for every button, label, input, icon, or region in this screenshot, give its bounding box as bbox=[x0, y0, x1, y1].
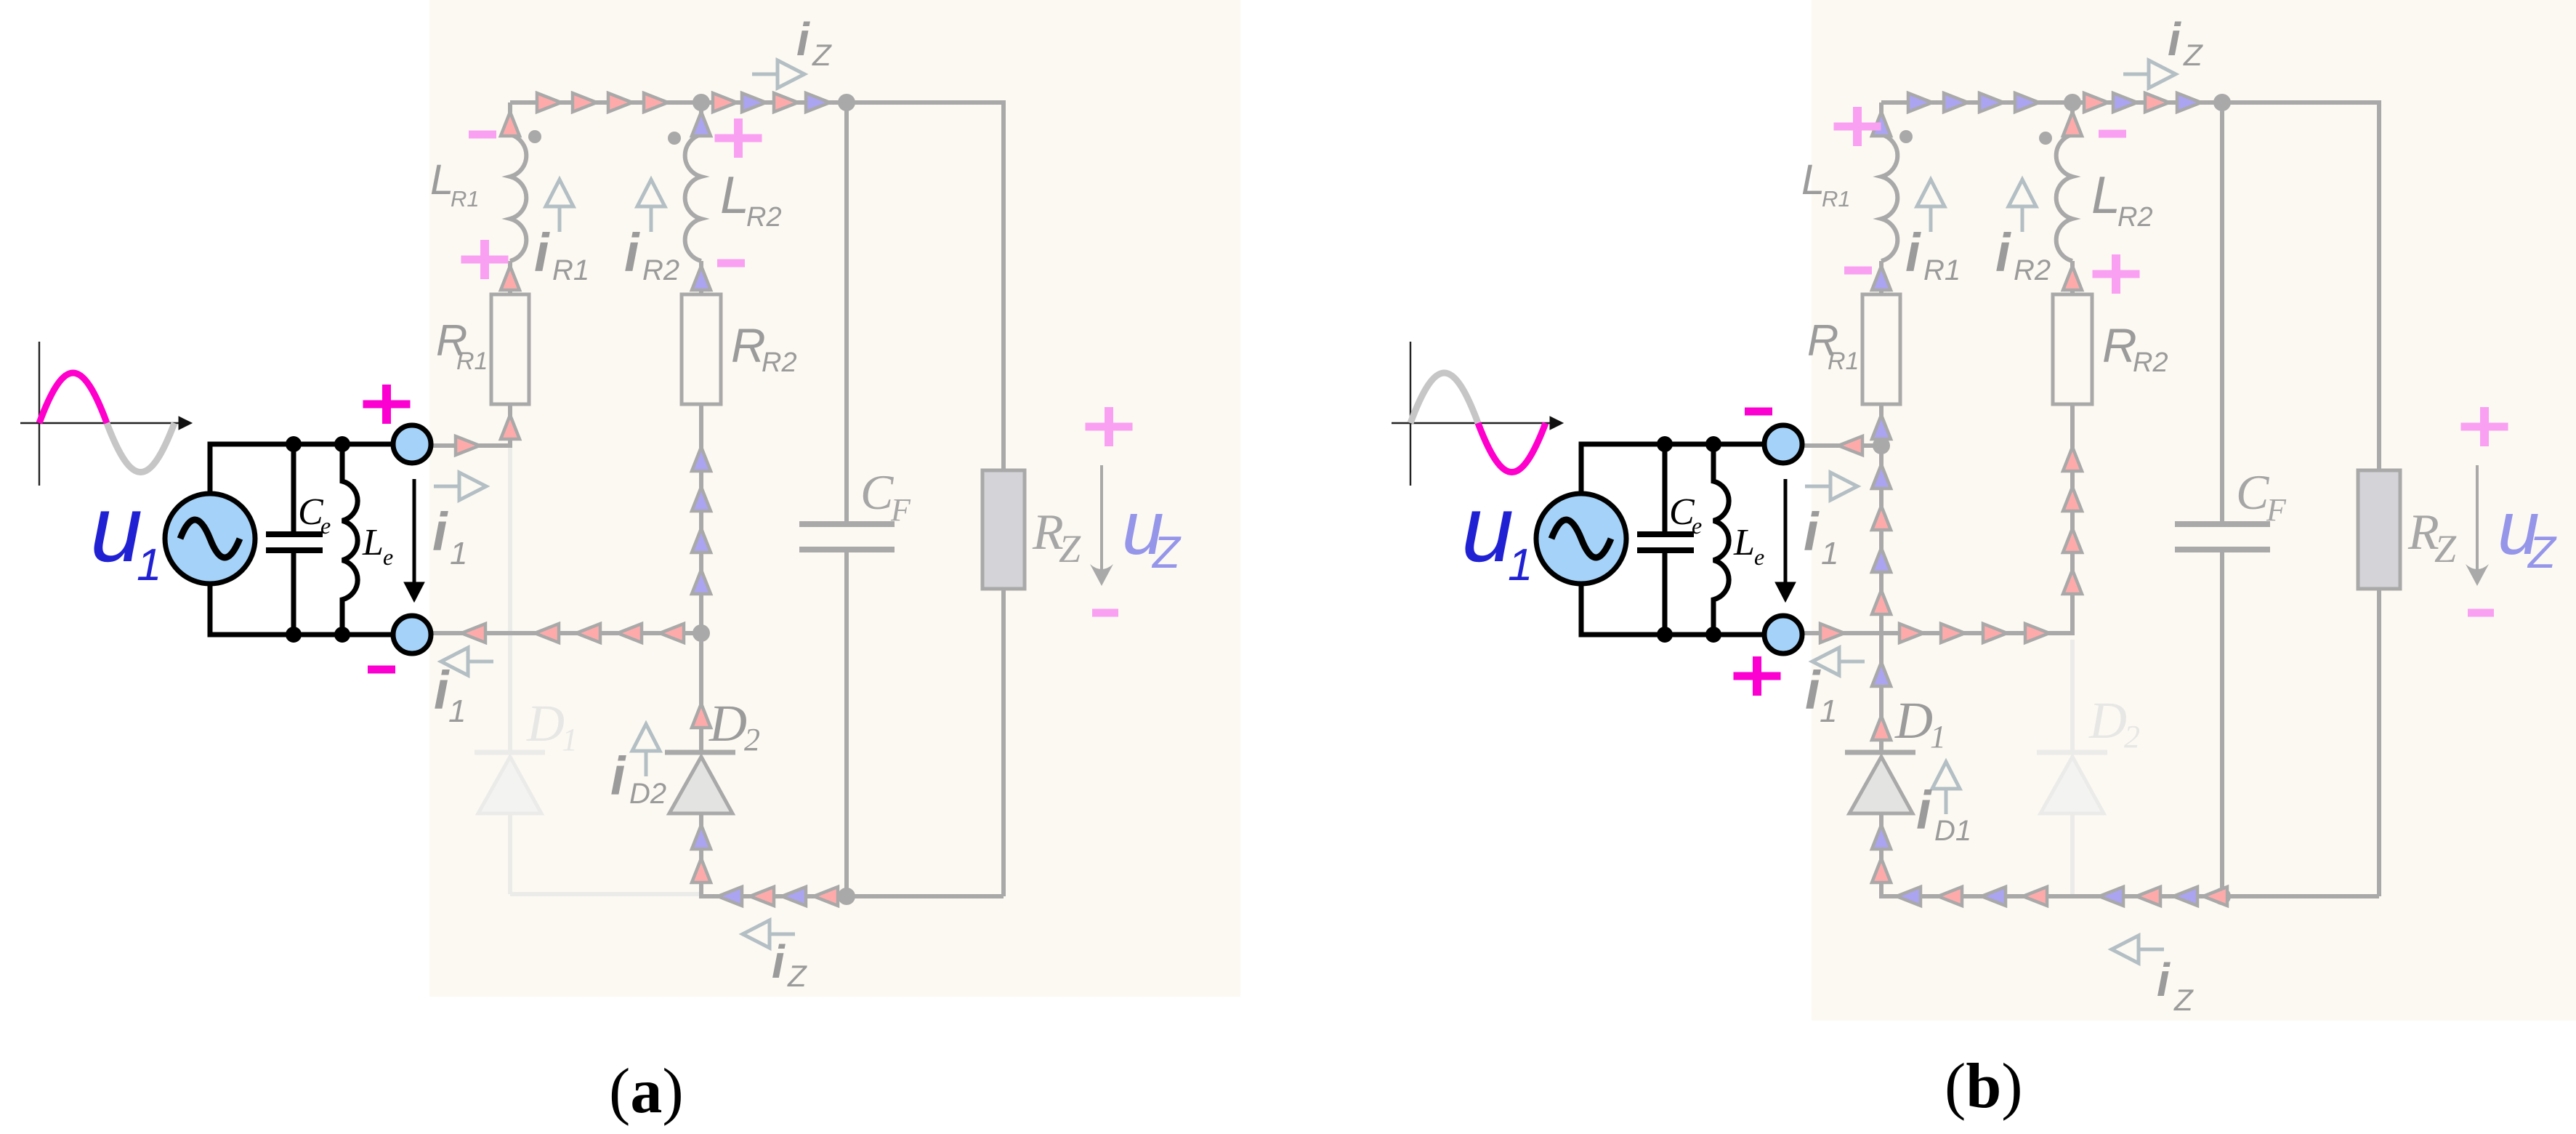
junction dot bottom rail (a) bbox=[693, 624, 710, 642]
svg-text:L: L bbox=[362, 522, 384, 563]
svg-text:i: i bbox=[2168, 13, 2181, 65]
svg-text:1: 1 bbox=[137, 540, 161, 590]
svg-text:C: C bbox=[860, 465, 894, 520]
svg-text:i: i bbox=[434, 660, 450, 720]
sine reference axes (a) bbox=[20, 342, 192, 486]
polarity dot L_R2 (b) bbox=[2039, 132, 2052, 145]
annotation arrow i_Z top (b) bbox=[2149, 60, 2176, 88]
junction dot C_F top (a) bbox=[838, 94, 855, 111]
diode D2 (off) (b) bbox=[2037, 752, 2107, 813]
annotation arrow i_R2 (b) bbox=[2008, 180, 2036, 206]
junction dot L_R2 top (a) bbox=[693, 94, 710, 111]
svg-text:u: u bbox=[90, 475, 142, 582]
svg-text:1: 1 bbox=[562, 722, 578, 757]
inductor L_R2 (a) bbox=[685, 134, 701, 261]
capacitor Ce branch (b) bbox=[1637, 444, 1694, 635]
svg-text:i: i bbox=[1995, 222, 2011, 283]
arrow i_1 (b) bbox=[1775, 479, 1796, 602]
junction dot Ce bottom (a) bbox=[286, 627, 302, 643]
wire L_R2 to R_R2 (a) bbox=[699, 261, 703, 294]
resistor R_Z (a) bbox=[982, 470, 1025, 589]
svg-text:R1: R1 bbox=[456, 347, 488, 375]
svg-text:i: i bbox=[432, 502, 448, 562]
wire R_Z branch upper (a) bbox=[1001, 100, 1006, 470]
node terminal bottom (a) bbox=[393, 616, 431, 654]
current flow arrows bottom node rail (a) bbox=[461, 624, 684, 643]
svg-text:Z: Z bbox=[2173, 983, 2194, 1017]
current flow arrows top rail right (b) bbox=[2084, 93, 2201, 112]
svg-text:(b): (b) bbox=[1945, 1051, 2023, 1122]
junction dot Le bottom (b) bbox=[1705, 627, 1721, 643]
arrow i_1 (a) bbox=[404, 479, 424, 602]
svg-text:i: i bbox=[1905, 222, 1921, 283]
junction dot C_F bottom (b) bbox=[2213, 888, 2231, 905]
wire C_F branch upper (b) bbox=[2220, 102, 2224, 524]
wire source top (a) bbox=[210, 444, 393, 494]
svg-text:1: 1 bbox=[1821, 536, 1838, 571]
svg-text:2: 2 bbox=[2124, 719, 2140, 755]
junction dot Ce bottom (b) bbox=[1657, 627, 1673, 643]
svg-text:Z: Z bbox=[1151, 528, 1182, 578]
wire faded D1 to bottom (a) bbox=[510, 813, 701, 894]
polarity dot L_R1 (b) bbox=[1899, 130, 1913, 143]
current flow arrow above R_R2 (a) bbox=[692, 266, 711, 290]
svg-text:R2: R2 bbox=[762, 347, 797, 378]
svg-text:e: e bbox=[383, 544, 393, 570]
annotation arrow i_1 top (a) bbox=[459, 472, 486, 500]
resistor R_R1 (b) bbox=[1862, 294, 1900, 404]
highlight panel (b) bbox=[1812, 0, 2576, 1021]
node terminal top (a) bbox=[393, 425, 431, 463]
svg-text:1: 1 bbox=[448, 693, 466, 729]
inductor L_R1 (b) bbox=[1881, 134, 1897, 261]
plus source top (a) bbox=[363, 385, 411, 424]
sine reference axes (b) bbox=[1392, 342, 1563, 486]
wire D1 to bottom rail (b) bbox=[1879, 813, 1883, 898]
junction dot C_F top (b) bbox=[2213, 94, 2231, 111]
svg-text:e: e bbox=[1692, 512, 1702, 539]
resistor R_Z (b) bbox=[2358, 470, 2400, 589]
wire L_R1 to R_R1 (b) bbox=[1879, 261, 1883, 294]
svg-text:R1: R1 bbox=[552, 254, 589, 286]
wire top node to branch1 (b) bbox=[1802, 443, 1881, 448]
wire source top (b) bbox=[1581, 444, 1764, 494]
annotation arrow i_R2 (a) bbox=[637, 180, 665, 206]
svg-text:e: e bbox=[320, 512, 331, 539]
svg-text:R2: R2 bbox=[746, 202, 782, 233]
current flow arrow below R_R1 (a) bbox=[501, 415, 520, 439]
inductor L_R2 (b) bbox=[2056, 134, 2072, 261]
wire source bottom (a) bbox=[210, 584, 393, 635]
current flow arrows top rail left (a) bbox=[537, 93, 668, 112]
svg-text:i: i bbox=[772, 936, 786, 988]
annotation arrow i_D2 (a) bbox=[632, 724, 660, 751]
minus source top (b) bbox=[1745, 408, 1772, 416]
wire R_R2 to D2 (a) bbox=[699, 404, 703, 752]
svg-text:1: 1 bbox=[1508, 540, 1533, 590]
minus u_Z (b) bbox=[2468, 609, 2494, 617]
wire bottom node rail (b) bbox=[1802, 631, 2072, 635]
capacitor Ce branch (a) bbox=[266, 444, 323, 635]
current flow arrow below R_R1 (b) bbox=[1872, 415, 1891, 439]
svg-text:C: C bbox=[2236, 465, 2269, 520]
current flow arrow node rail (b) bbox=[1838, 436, 1862, 455]
svg-text:Z: Z bbox=[1059, 527, 1081, 571]
svg-text:Z: Z bbox=[812, 38, 832, 72]
arrow u_Z (b) bbox=[2466, 465, 2489, 586]
svg-text:D: D bbox=[708, 694, 747, 752]
diode D1 (off) (a) bbox=[475, 752, 545, 813]
junction dot Ce top (b) bbox=[1657, 436, 1673, 452]
current flow arrow above R_R1 (b) bbox=[1872, 266, 1891, 290]
plus L_R1 (a) bbox=[461, 240, 509, 279]
current flow arrows bottom rail (a) bbox=[718, 887, 838, 906]
svg-text:1: 1 bbox=[1820, 693, 1837, 729]
svg-text:R1: R1 bbox=[451, 186, 480, 212]
wire L_R2 to R_R2 (b) bbox=[2070, 261, 2075, 294]
wire R_Z branch lower (b) bbox=[2377, 589, 2381, 896]
wire L_R1 to R_R1 (a) bbox=[508, 261, 512, 294]
current flow arrows bottom node rail (b) bbox=[1820, 624, 2049, 643]
svg-text:D: D bbox=[2088, 691, 2127, 749]
svg-text:R2: R2 bbox=[642, 254, 679, 286]
arrow u_Z (a) bbox=[1090, 465, 1113, 586]
inductor L_R1 (a) bbox=[510, 134, 526, 261]
current flow arrows D1 branch (b) bbox=[1872, 465, 1891, 740]
current flow arrows below D1 (b) bbox=[1872, 825, 1891, 882]
current flow arrows top rail left (b) bbox=[1908, 93, 2039, 112]
minus L_R1 (b) bbox=[1844, 267, 1872, 275]
highlight panel (a) bbox=[429, 0, 1240, 997]
annotation arrow i_1 bottom (b) bbox=[1812, 648, 1839, 675]
svg-text:R2: R2 bbox=[2117, 202, 2153, 233]
junction dot C_F bottom (a) bbox=[838, 888, 855, 905]
plus L_R1 (b) bbox=[1834, 107, 1881, 146]
wire R_R1 to node rail (b) bbox=[1879, 404, 1883, 448]
current flow arrow L_R1 top (a) bbox=[501, 112, 520, 136]
wire faded D1 branch (a) bbox=[508, 446, 512, 752]
svg-text:R1: R1 bbox=[1822, 186, 1851, 212]
diode D1 (b) bbox=[1845, 752, 1915, 813]
junction dot L_R2 top (b) bbox=[2064, 94, 2081, 111]
svg-text:e: e bbox=[1754, 544, 1764, 570]
wire L_R1 top stub (b) bbox=[1879, 102, 1883, 136]
svg-text:L: L bbox=[720, 166, 749, 225]
svg-text:1: 1 bbox=[450, 536, 467, 571]
annotation arrow i_1 bottom (a) bbox=[441, 648, 468, 675]
inductor Le branch (b) bbox=[1713, 444, 1729, 635]
plus L_R2 (a) bbox=[715, 118, 762, 158]
svg-text:Z: Z bbox=[2434, 527, 2457, 571]
current flow arrow above R_R2 (b) bbox=[2063, 266, 2082, 290]
svg-text:D1: D1 bbox=[1934, 815, 1971, 847]
current flow arrows below R_R2 (a) bbox=[692, 447, 711, 594]
minus source bottom (a) bbox=[368, 666, 395, 674]
current flow arrow L_R2 top (a) bbox=[692, 112, 711, 136]
junction dot Le top (b) bbox=[1705, 436, 1721, 452]
current flow arrow L_R2 top (b) bbox=[2063, 112, 2082, 136]
svg-text:D2: D2 bbox=[629, 778, 666, 810]
svg-text:(a): (a) bbox=[609, 1056, 684, 1127]
svg-text:D: D bbox=[1894, 691, 1933, 749]
plus u_Z (a) bbox=[1086, 407, 1133, 446]
minus L_R1 (a) bbox=[469, 131, 496, 139]
annotation arrow i_D1 (b) bbox=[1932, 762, 1960, 789]
current flow arrow above R_R1 (a) bbox=[501, 266, 520, 290]
minus L_R2 (b) bbox=[2099, 130, 2126, 138]
wire L_R1 top stub (a) bbox=[508, 102, 512, 136]
polarity dot L_R2 (a) bbox=[668, 132, 681, 145]
svg-text:R: R bbox=[731, 318, 766, 372]
resistor R_R2 (b) bbox=[2053, 294, 2092, 404]
svg-text:Z: Z bbox=[2183, 38, 2203, 72]
annotation arrow i_Z top (a) bbox=[778, 60, 804, 88]
sine waveform (b) bbox=[1410, 373, 1546, 472]
svg-text:u: u bbox=[1461, 475, 1514, 582]
wire top node to branch1 (a) bbox=[431, 443, 510, 448]
junction dot Le bottom (a) bbox=[334, 627, 350, 643]
wire L_R2 top stub (a) bbox=[699, 102, 703, 136]
annotation arrow i_Z bottom (a) bbox=[743, 920, 770, 948]
capacitor C_F (a) bbox=[799, 524, 895, 550]
node terminal top (b) bbox=[1764, 425, 1802, 463]
current flow arrow above D2 (a) bbox=[692, 704, 711, 728]
wire L_R2 top stub (b) bbox=[2070, 102, 2075, 136]
plus source bottom (b) bbox=[1734, 656, 1781, 696]
svg-text:1: 1 bbox=[1930, 719, 1946, 755]
current flow arrows bottom rail (b) bbox=[1897, 887, 2227, 906]
diode D2 (a) bbox=[665, 752, 735, 813]
svg-text:R2: R2 bbox=[2133, 347, 2168, 378]
junction dot node rail (b) bbox=[1873, 437, 1890, 454]
plus L_R2 (b) bbox=[2093, 254, 2140, 294]
svg-text:i: i bbox=[610, 746, 626, 806]
current flow arrows top rail right (a) bbox=[713, 93, 830, 112]
svg-text:R1: R1 bbox=[1828, 347, 1859, 375]
wire faded D2 to bottom (b) bbox=[2070, 813, 2075, 896]
current flow arrows below D2 (a) bbox=[692, 825, 711, 882]
junction dot Le top (a) bbox=[334, 436, 350, 452]
svg-text:i: i bbox=[796, 13, 810, 65]
minus L_R2 (a) bbox=[717, 260, 745, 268]
annotation arrow i_Z bottom (b) bbox=[2112, 936, 2139, 963]
wire C_F branch lower (b) bbox=[2220, 550, 2224, 896]
current flow arrows below R_R2 (b) bbox=[2063, 447, 2082, 594]
svg-text:R2: R2 bbox=[2014, 254, 2051, 286]
wire bottom node rail (a) bbox=[431, 631, 701, 635]
current flow arrow L_R1 top (b) bbox=[1872, 112, 1891, 136]
polarity dot L_R1 (a) bbox=[528, 130, 541, 143]
annotation arrow i_1 top (b) bbox=[1830, 472, 1857, 500]
svg-text:i: i bbox=[2157, 954, 2171, 1006]
wire D2 to bottom rail (a) bbox=[699, 813, 703, 898]
minus u_Z (a) bbox=[1092, 609, 1118, 617]
wire R_R1 to node rail (a) bbox=[508, 404, 512, 448]
sine waveform (a) bbox=[39, 373, 174, 472]
source u1 (a) bbox=[165, 494, 255, 584]
svg-text:R: R bbox=[2102, 318, 2137, 372]
wire C_F branch upper (a) bbox=[844, 102, 849, 524]
svg-text:i: i bbox=[1805, 660, 1821, 720]
svg-text:L: L bbox=[2091, 166, 2120, 225]
current flow arrow node rail (a) bbox=[456, 436, 480, 455]
svg-text:i: i bbox=[1804, 502, 1820, 562]
annotation arrow i_R1 (a) bbox=[546, 180, 573, 206]
annotation arrow i_R1 (b) bbox=[1917, 180, 1945, 206]
svg-text:R1: R1 bbox=[1923, 254, 1961, 286]
svg-text:Z: Z bbox=[2527, 528, 2557, 578]
wire bottom rail (b) bbox=[1881, 894, 2379, 898]
wire bottom rail (a) bbox=[701, 894, 1004, 898]
inductor Le branch (a) bbox=[342, 444, 358, 635]
wire top rail (b) bbox=[1881, 100, 2379, 105]
wire top rail (a) bbox=[510, 100, 1004, 105]
svg-text:L: L bbox=[1733, 522, 1755, 563]
svg-text:2: 2 bbox=[744, 722, 760, 757]
source u1 (b) bbox=[1536, 494, 1626, 584]
wire R_Z branch lower (a) bbox=[1001, 589, 1006, 896]
plus u_Z (b) bbox=[2461, 407, 2508, 446]
wire faded D2 branch (b) bbox=[2070, 640, 2075, 752]
wire D1 branch (b) bbox=[1879, 446, 1883, 752]
wire source bottom (b) bbox=[1581, 584, 1764, 635]
svg-text:i: i bbox=[1916, 780, 1932, 840]
wire R_Z branch upper (b) bbox=[2377, 100, 2381, 470]
junction dot Ce top (a) bbox=[286, 436, 302, 452]
svg-text:F: F bbox=[2266, 492, 2287, 528]
svg-text:F: F bbox=[890, 492, 911, 528]
svg-text:Z: Z bbox=[787, 959, 807, 993]
capacitor C_F (b) bbox=[2175, 524, 2270, 550]
wire C_F branch lower (a) bbox=[844, 550, 849, 896]
resistor R_R1 (a) bbox=[491, 294, 529, 404]
resistor R_R2 (a) bbox=[682, 294, 721, 404]
svg-text:i: i bbox=[624, 222, 640, 283]
node terminal bottom (b) bbox=[1764, 616, 1802, 654]
wire R_R2 lower (b) bbox=[2070, 404, 2075, 635]
svg-text:i: i bbox=[534, 222, 550, 283]
svg-text:D: D bbox=[526, 694, 565, 752]
